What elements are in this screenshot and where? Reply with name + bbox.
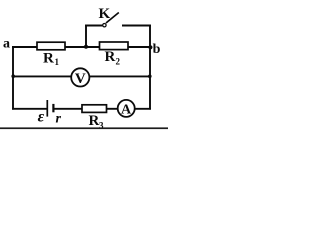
battery cell long plate (46, 100, 48, 117)
wire: voltmeter row left segment (12, 75, 72, 77)
ammeter A (118, 100, 135, 117)
wire: top row left segment a to R1 (12, 46, 38, 48)
wire: right vertical from switch down through b to ammeter row (149, 25, 151, 110)
switch K pivot contact (103, 24, 106, 27)
svg-text:R: R (43, 51, 54, 67)
battery cell short plate (52, 104, 54, 112)
wire: top row R2 to node b (128, 46, 150, 48)
svg-text:V: V (75, 71, 86, 87)
wire: ammeter to right vertical (135, 108, 151, 110)
svg-text:R: R (89, 113, 100, 129)
wire: R3 to ammeter (107, 108, 119, 110)
wire: voltmeter row right segment (90, 75, 151, 77)
resistor R1 (37, 42, 65, 50)
wire: top row between R1 and R2 (65, 46, 100, 48)
bottom rule line (0, 127, 168, 129)
svg-text:r: r (56, 112, 62, 127)
wire: switch branch top left segment (85, 25, 102, 27)
junction dot voltmeter row left (11, 74, 15, 78)
wire: battery to R3 (53, 108, 82, 110)
voltmeter V (71, 68, 89, 86)
junction dot at switch tap (84, 45, 88, 49)
resistor R3 (82, 105, 107, 113)
wire: battery row left segment (12, 108, 47, 110)
svg-text:1: 1 (55, 57, 60, 67)
svg-text:R: R (105, 49, 116, 65)
switch K lever arm (106, 13, 119, 24)
svg-text:2: 2 (116, 57, 121, 67)
wire: left vertical from node a down to battery row (12, 46, 14, 110)
svg-text:A: A (121, 103, 132, 118)
junction dot voltmeter row right (148, 75, 152, 79)
wire: switch branch top right segment (122, 25, 151, 27)
svg-text:b: b (153, 42, 161, 57)
svg-text:K: K (99, 6, 111, 22)
svg-text:ε: ε (38, 108, 45, 125)
resistor R2 (100, 42, 129, 50)
svg-text:a: a (3, 37, 10, 52)
wire: switch branch left vertical leg (85, 25, 87, 47)
node b junction dot (148, 45, 152, 49)
